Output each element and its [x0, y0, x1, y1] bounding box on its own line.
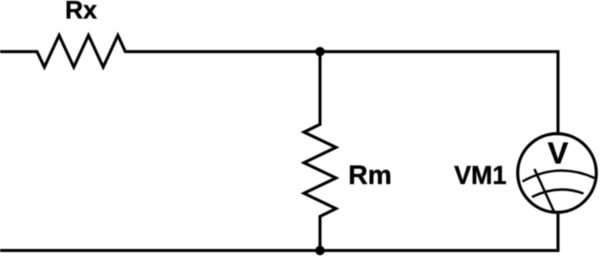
svg-text:V: V — [548, 135, 569, 170]
svg-text:VM1: VM1 — [454, 162, 506, 190]
svg-text:Rm: Rm — [348, 160, 392, 190]
svg-text:Rx: Rx — [65, 0, 97, 24]
